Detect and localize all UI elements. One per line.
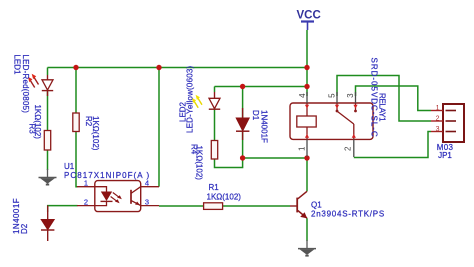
relay pin stub 1 xyxy=(306,139,308,156)
diode D2 1N4001F xyxy=(41,206,54,231)
svg-text:4: 4 xyxy=(145,178,149,187)
junction node R2 top xyxy=(73,65,78,70)
relay RELAY1 xyxy=(290,103,373,139)
JP1 pin stub 1 xyxy=(431,110,443,112)
LED1 xyxy=(28,74,53,96)
svg-text:1KΩ(102): 1KΩ(102) xyxy=(33,105,42,140)
svg-text:2n3904S-RTK/PS: 2n3904S-RTK/PS xyxy=(311,210,385,219)
ground under Q1 xyxy=(298,240,316,257)
junction node VCC tee xyxy=(304,65,309,70)
junction node rail2 at VCC line xyxy=(304,84,309,89)
diode D1 1N4001F xyxy=(236,108,249,140)
relay pin entry marks xyxy=(305,105,358,138)
svg-text:LED-Yellow(0603): LED-Yellow(0603) xyxy=(186,65,195,133)
svg-text:1KΩ(102): 1KΩ(102) xyxy=(91,116,100,151)
svg-text:1KΩ(102): 1KΩ(102) xyxy=(207,193,242,202)
wire LED1 to R3 xyxy=(47,92,49,131)
LED2 xyxy=(192,92,220,109)
svg-text:U1: U1 xyxy=(64,162,75,171)
resistor R1 xyxy=(204,203,223,210)
wire LED2 to R4 xyxy=(214,109,216,140)
svg-text:2: 2 xyxy=(344,146,353,151)
wire LED2/D1 rail y86 xyxy=(215,86,308,88)
wire relay pin 5 to JP1 pin 2 xyxy=(337,76,431,122)
transistor Q1 2n3904 xyxy=(290,191,307,218)
wire R3 to ground xyxy=(47,150,49,170)
resistor R4 xyxy=(211,141,217,160)
JP1 pin stub 2 xyxy=(431,120,443,122)
svg-text:1: 1 xyxy=(436,105,440,112)
svg-text:2: 2 xyxy=(436,115,440,122)
wire LED2 anode xyxy=(214,87,216,93)
wire LED1 anode xyxy=(47,68,49,76)
wire top VCC rail xyxy=(48,67,308,69)
wire VCC to relay pin 4 xyxy=(306,68,308,97)
wire U1 pin 3 to R1 xyxy=(159,205,204,207)
svg-text:1N4001F: 1N4001F xyxy=(260,110,269,143)
svg-text:1KΩ(102): 1KΩ(102) xyxy=(195,146,204,181)
svg-text:D2: D2 xyxy=(20,223,29,234)
svg-text:R1: R1 xyxy=(209,183,220,192)
svg-text:RELAY1: RELAY1 xyxy=(377,93,386,122)
svg-text:JP1: JP1 xyxy=(438,151,452,160)
wire R2 to U1 pin 1 xyxy=(76,132,78,187)
junction node U1 pin4 rail xyxy=(156,65,161,70)
wire relay pin 2 to JP1 pin 3 xyxy=(354,132,431,158)
wire relay pin 3 to JP1 pin 1 xyxy=(356,86,432,111)
svg-text:SRD-05VDC-SL-C: SRD-05VDC-SL-C xyxy=(370,58,379,138)
junction node D1 top xyxy=(240,84,245,89)
svg-text:4: 4 xyxy=(298,93,307,98)
svg-text:1: 1 xyxy=(297,146,306,151)
JP1 pin stub 3 xyxy=(431,131,443,133)
wire D1 anode top xyxy=(242,87,244,119)
wire bottom rail to relay pin 1 node xyxy=(243,157,307,159)
junction node relay pin1 / Q1 collector xyxy=(304,155,309,160)
wire D2 bottom stub xyxy=(47,230,49,241)
ground under R3 xyxy=(39,169,57,186)
svg-text:Q1: Q1 xyxy=(311,201,322,210)
svg-text:D1: D1 xyxy=(251,110,260,121)
power flag VCC xyxy=(297,10,321,31)
relay pin stub 3 xyxy=(355,92,357,103)
svg-text:3: 3 xyxy=(436,126,440,133)
svg-text:1: 1 xyxy=(84,178,88,187)
opto-coupler U1 PC817 xyxy=(77,181,159,212)
resistor R3 xyxy=(44,131,50,151)
wire U1 pin 2 to D2 xyxy=(48,206,78,212)
relay pin stub 5 xyxy=(336,92,338,103)
svg-text:VCC: VCC xyxy=(297,10,321,22)
relay pin stub 4 xyxy=(306,92,308,103)
wire R4 return to D1 node xyxy=(215,158,243,168)
wire VCC stub down xyxy=(306,30,308,68)
svg-text:LED1: LED1 xyxy=(13,55,22,76)
svg-text:PC817X1NIP0F(A ): PC817X1NIP0F(A ) xyxy=(64,171,150,180)
junction node D1 bottom xyxy=(240,155,245,160)
wire R1 to Q1 base xyxy=(223,205,290,207)
wire Q1 emitter to ground xyxy=(306,218,308,241)
wire D1 cathode bottom xyxy=(242,132,244,159)
wire relay pin 1 to Q1 collector xyxy=(306,157,308,192)
connector JP1 M03 xyxy=(443,104,464,142)
svg-text:5: 5 xyxy=(328,93,337,98)
wire U1 pin 4 to VCC rail xyxy=(158,68,160,187)
wire R2 top xyxy=(75,68,77,114)
resistor R2 xyxy=(73,113,79,132)
svg-text:3: 3 xyxy=(346,93,355,98)
relay pin stub 2 xyxy=(353,139,355,157)
svg-text:2: 2 xyxy=(84,197,88,206)
svg-text:3: 3 xyxy=(145,197,149,206)
svg-text:LED-Red(0805): LED-Red(0805) xyxy=(21,55,30,114)
